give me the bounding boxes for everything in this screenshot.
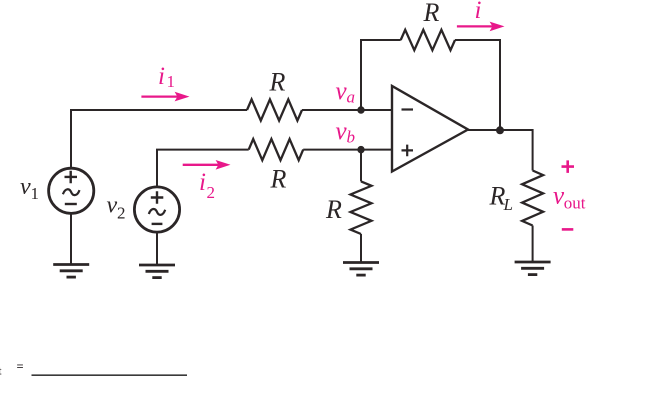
svg-text:2: 2 xyxy=(207,183,216,202)
svg-text:i: i xyxy=(158,63,165,90)
node A junction dot xyxy=(357,106,364,113)
wire grounded R to ground xyxy=(360,234,362,263)
resistor R2 (v2 branch) xyxy=(249,139,304,160)
svg-text:b: b xyxy=(347,128,356,147)
ground (v1) xyxy=(53,265,89,278)
svg-text:i: i xyxy=(199,169,206,196)
svg-text:1: 1 xyxy=(167,72,176,91)
svg-text:2: 2 xyxy=(117,204,126,223)
ground (v2) xyxy=(139,265,175,278)
wire node B down to grounded R xyxy=(360,150,362,182)
svg-text:R: R xyxy=(269,68,286,97)
resistor R grounding (node B) xyxy=(351,181,372,234)
svg-text:L: L xyxy=(503,195,513,214)
svg-text:1: 1 xyxy=(31,184,40,203)
ground (node B resistor) xyxy=(343,263,379,276)
svg-text:out: out xyxy=(564,194,586,213)
ground (RL) xyxy=(515,262,551,275)
label vout minus xyxy=(562,228,574,231)
svg-text:a: a xyxy=(347,88,356,107)
source v1 xyxy=(49,168,94,213)
svg-text:v: v xyxy=(107,193,118,219)
wire v2 bottom to ground xyxy=(156,233,158,266)
wire op-amp output xyxy=(468,130,533,171)
resistor R feedback xyxy=(401,30,455,50)
wire feedback resistor to output node xyxy=(455,40,500,130)
current arrow i xyxy=(457,22,505,32)
svg-text:i: i xyxy=(475,0,482,24)
wire v1 top to R1 xyxy=(71,110,247,169)
current arrow i2 xyxy=(183,160,231,170)
node B junction dot xyxy=(357,146,364,153)
wire node A up to feedback resistor xyxy=(361,40,401,110)
op-amp U1 xyxy=(392,86,468,172)
output node junction dot xyxy=(496,126,504,134)
svg-text:=: = xyxy=(17,360,24,374)
wire v2 top to R2 xyxy=(157,150,249,187)
svg-text:R: R xyxy=(325,195,342,224)
wire R2 to op-amp plus input xyxy=(303,149,392,151)
svg-text:R: R xyxy=(423,0,440,27)
answer blank line xyxy=(32,374,188,376)
resistor R1 (v1 branch) xyxy=(247,99,302,120)
wire R1 to op-amp minus input xyxy=(302,109,392,111)
wire RL bottom to ground xyxy=(532,226,534,263)
svg-text:R: R xyxy=(270,165,287,194)
svg-text:v: v xyxy=(20,174,31,200)
label vout plus xyxy=(562,160,575,173)
source v2 xyxy=(134,187,179,232)
resistor RL xyxy=(522,171,543,226)
svg-text:t: t xyxy=(0,364,2,378)
current arrow i1 xyxy=(141,92,189,102)
wire v1 bottom to ground xyxy=(70,214,72,265)
